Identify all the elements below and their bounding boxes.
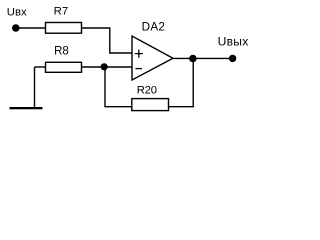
svg-text:R8: R8 bbox=[54, 46, 69, 58]
svg-text:R20: R20 bbox=[137, 85, 157, 97]
svg-text:Uвых: Uвых bbox=[218, 35, 249, 49]
svg-text:Uвх: Uвх bbox=[7, 7, 27, 19]
svg-text:R7: R7 bbox=[54, 5, 69, 17]
svg-text:DA2: DA2 bbox=[142, 21, 166, 34]
